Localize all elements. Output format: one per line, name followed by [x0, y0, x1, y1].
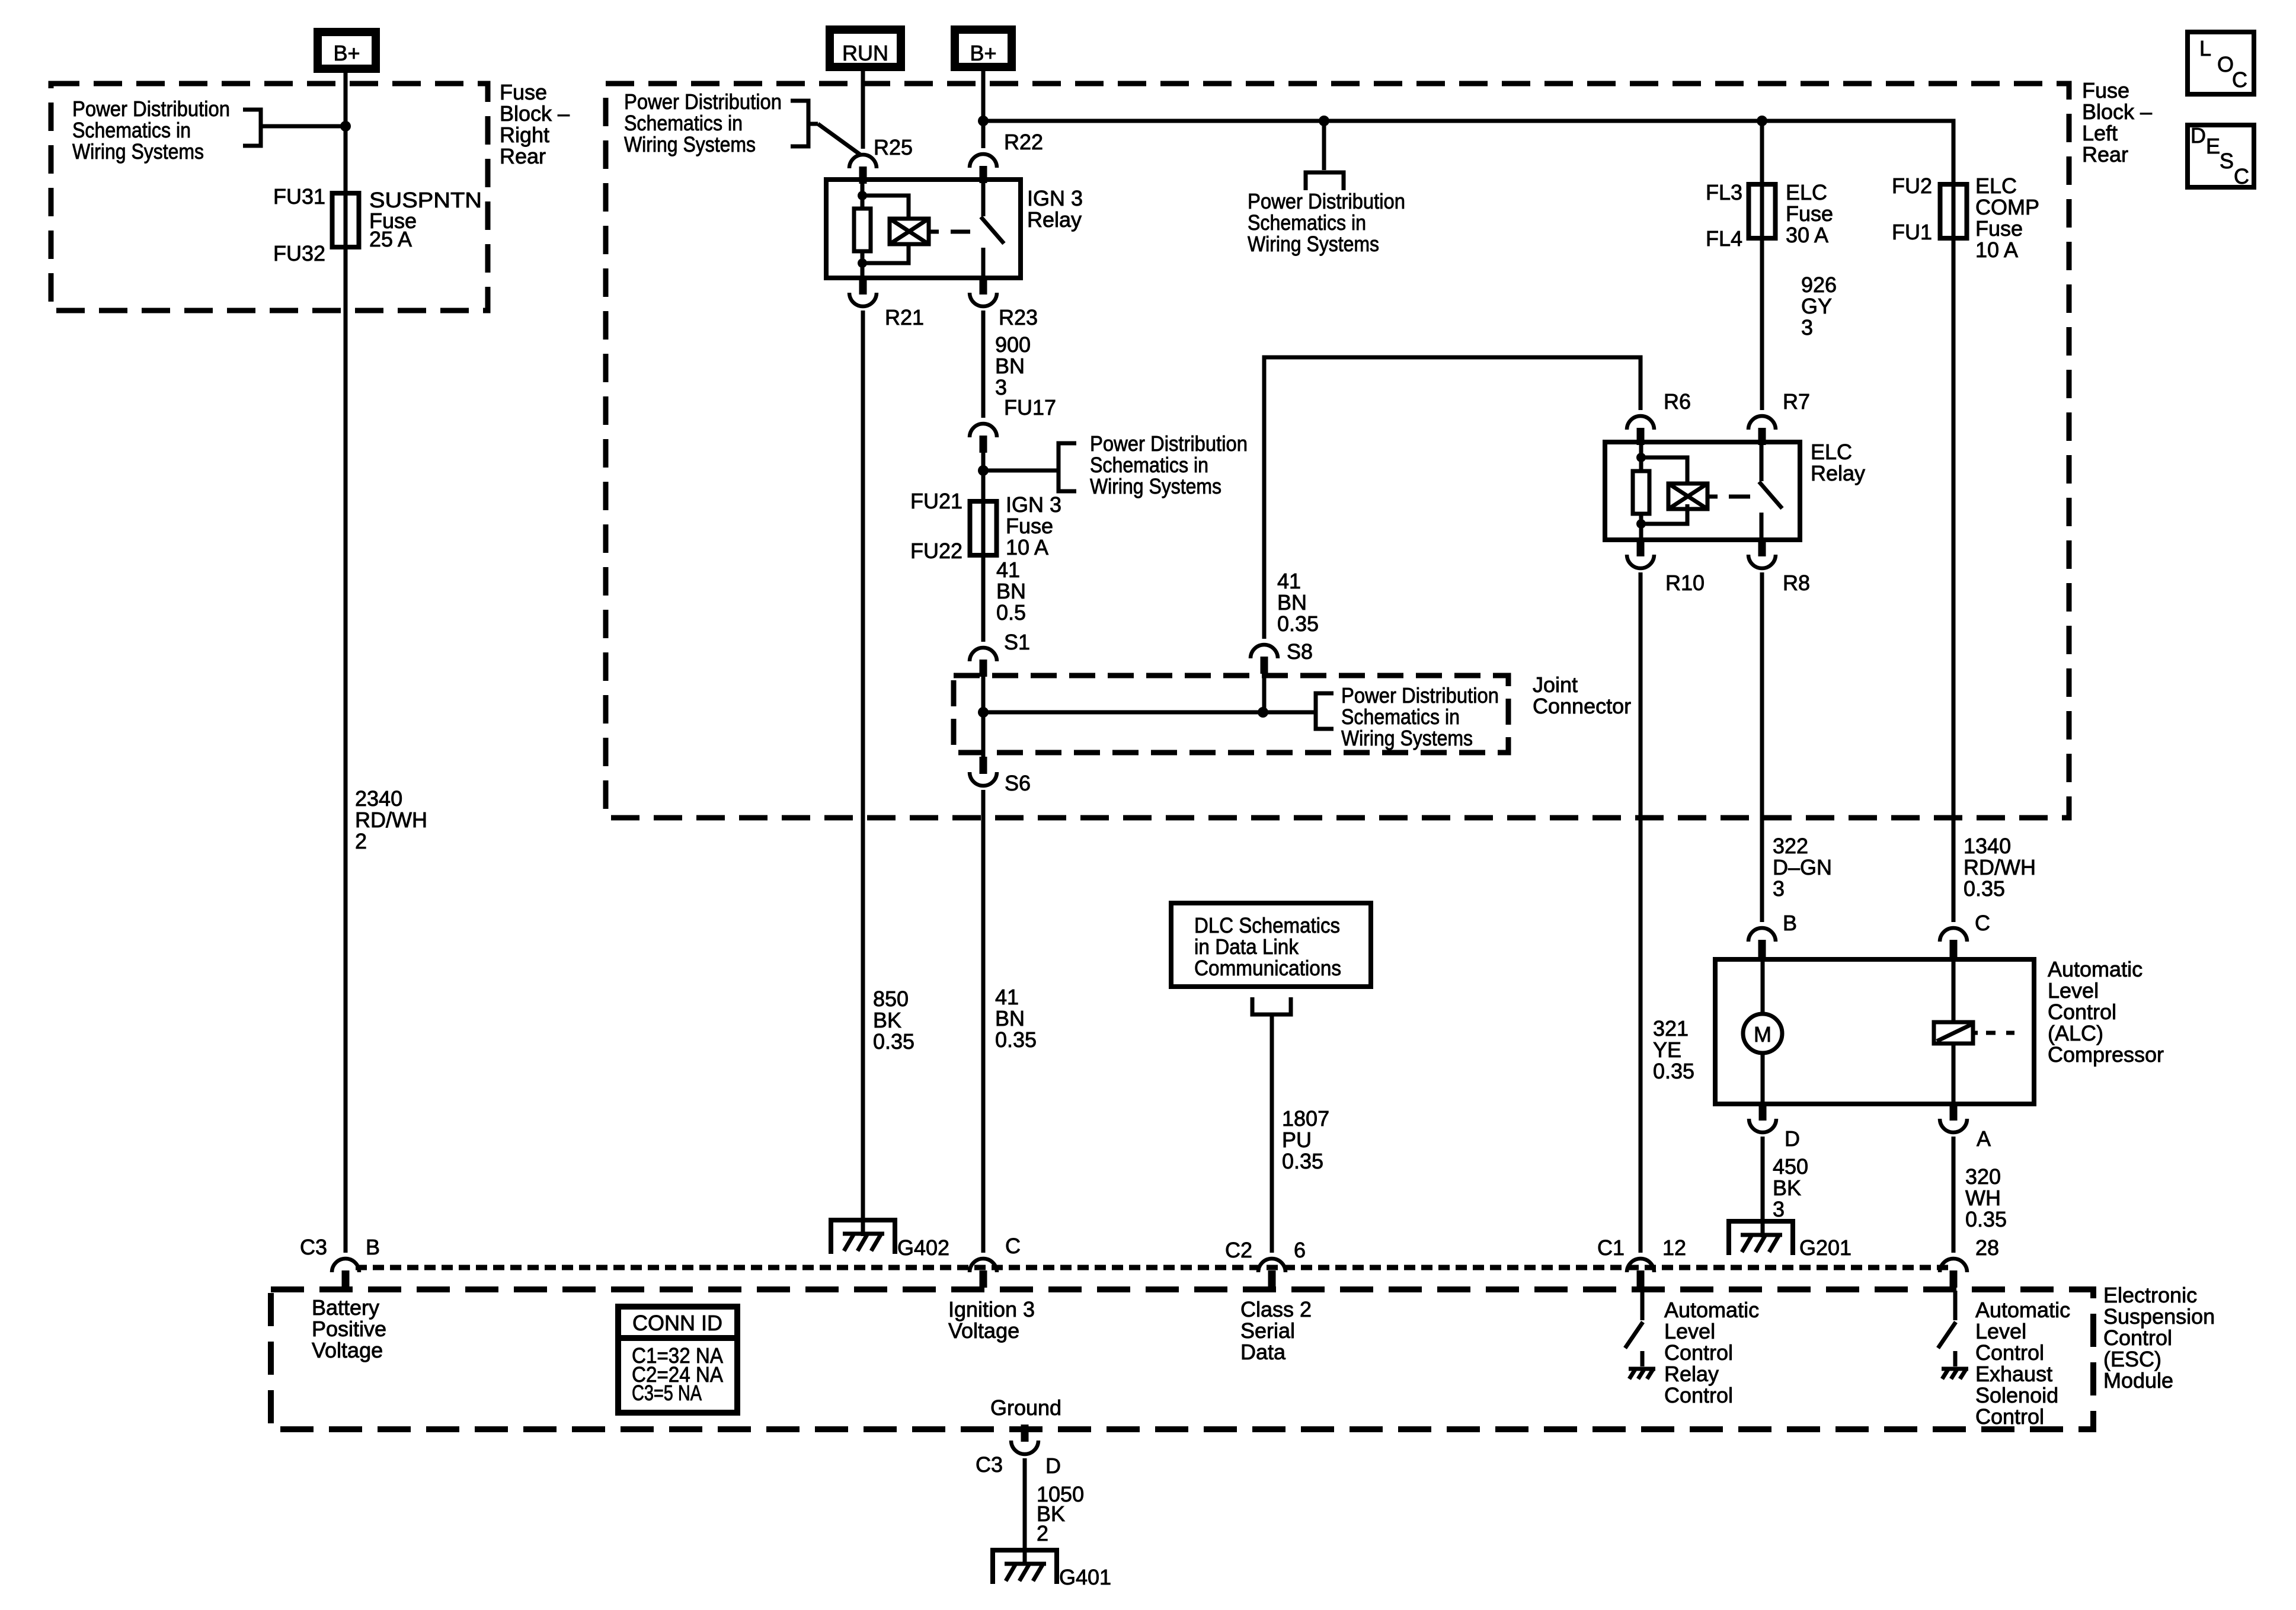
- wire: B+ left vertical down to ESC pin B: [344, 73, 348, 1253]
- svg-text:ELC: ELC: [1786, 180, 1827, 204]
- relay ELC coil resistor: [1633, 442, 1649, 540]
- svg-text:G201: G201: [1799, 1235, 1851, 1260]
- connector R21: [849, 277, 924, 329]
- svg-text:WH: WH: [1965, 1186, 2001, 1210]
- svg-text:Control: Control: [1664, 1340, 1733, 1365]
- switch: ALC exhaust solenoid driver: [1938, 1291, 1968, 1379]
- svg-text:3: 3: [1801, 315, 1813, 340]
- svg-text:Electronic: Electronic: [2103, 1283, 2197, 1307]
- wire: S6 down to ESC pin C: [981, 790, 986, 1253]
- wire label 1807 PU 0.35: [1282, 1106, 1329, 1173]
- svg-text:2: 2: [355, 829, 367, 853]
- svg-text:Wiring Systems: Wiring Systems: [1341, 726, 1473, 750]
- svg-text:C: C: [1975, 911, 1990, 935]
- wire label 850 BK 0.35: [873, 987, 914, 1054]
- svg-text:BK: BK: [873, 1008, 901, 1032]
- svg-text:41: 41: [1277, 569, 1301, 593]
- node: bus junction at FL3: [1757, 116, 1767, 126]
- svg-text:FL3: FL3: [1706, 180, 1742, 204]
- svg-text:Data: Data: [1240, 1340, 1286, 1364]
- wire: ground pin down to G401: [1023, 1458, 1027, 1566]
- svg-text:322: 322: [1773, 834, 1808, 858]
- svg-text:Schematics in: Schematics in: [1090, 453, 1208, 477]
- svg-text:RUN: RUN: [842, 41, 888, 65]
- svg-text:Level: Level: [1664, 1319, 1715, 1343]
- svg-text:FL4: FL4: [1706, 226, 1742, 251]
- svg-text:25 A: 25 A: [369, 227, 412, 251]
- svg-text:Schematics in: Schematics in: [72, 118, 191, 142]
- svg-text:Power Distribution: Power Distribution: [72, 97, 230, 121]
- svg-text:FU22: FU22: [910, 539, 962, 563]
- ground G402: [831, 1220, 949, 1260]
- motor M (ALC compressor): [1743, 959, 1782, 1104]
- svg-text:0.5: 0.5: [996, 600, 1026, 625]
- svg-text:Power Distribution: Power Distribution: [1248, 189, 1405, 213]
- svg-text:Level: Level: [1975, 1319, 2026, 1343]
- svg-text:C: C: [1005, 1234, 1021, 1258]
- connector A (ALC): [1940, 1103, 1991, 1151]
- svg-text:S6: S6: [1005, 771, 1031, 795]
- svg-text:0.35: 0.35: [1653, 1059, 1694, 1083]
- svg-text:FU1: FU1: [1892, 220, 1932, 244]
- svg-text:926: 926: [1801, 273, 1837, 297]
- power terminal B+ center: [955, 30, 1012, 67]
- svg-text:BK: BK: [1773, 1176, 1801, 1200]
- svg-text:YE: YE: [1653, 1038, 1681, 1062]
- power terminal B+ left: [318, 32, 376, 69]
- wire: DLC box to ESC pin C2-6: [1252, 997, 1291, 1253]
- node: joint connector junction at S8 leg: [1258, 707, 1268, 718]
- svg-text:Block –: Block –: [2082, 100, 2152, 124]
- svg-text:D: D: [2191, 123, 2206, 148]
- svg-text:Wiring Systems: Wiring Systems: [72, 139, 204, 164]
- connector S1: [970, 630, 1030, 677]
- svg-text:R10: R10: [1665, 571, 1705, 595]
- svg-text:R7: R7: [1783, 389, 1810, 414]
- wire label 926 GY 3: [1801, 273, 1837, 340]
- svg-text:D: D: [1045, 1454, 1061, 1478]
- svg-text:C2: C2: [1225, 1238, 1252, 1262]
- wire: fuse FU22 down to S1: [981, 555, 986, 642]
- svg-text:GY: GY: [1801, 294, 1832, 318]
- connector C1-12 ALC relay control: [1597, 1235, 1759, 1407]
- connector C ignition 3 voltage: [948, 1234, 1035, 1343]
- svg-text:2: 2: [1037, 1521, 1048, 1545]
- connector S6: [970, 757, 1031, 795]
- relay IGN 3 solenoid winding: [862, 196, 939, 263]
- svg-text:(ESC): (ESC): [2103, 1347, 2161, 1371]
- svg-text:Ignition 3: Ignition 3: [948, 1297, 1035, 1321]
- svg-text:Exhaust: Exhaust: [1975, 1362, 2052, 1386]
- connector R7: [1748, 389, 1810, 445]
- svg-text:0.35: 0.35: [1964, 876, 2005, 901]
- svg-text:Communications: Communications: [1194, 956, 1341, 980]
- svg-text:(ALC): (ALC): [2048, 1021, 2103, 1045]
- ALC compressor box: [1715, 957, 2164, 1104]
- wire: S8 pin stub to joint bus: [1262, 673, 1267, 712]
- svg-text:28: 28: [1975, 1235, 1999, 1260]
- CONN ID table: [618, 1307, 737, 1413]
- svg-text:Relay: Relay: [1811, 461, 1865, 485]
- connector R23: [970, 277, 1038, 329]
- svg-text:Wiring Systems: Wiring Systems: [624, 132, 756, 156]
- svg-text:R21: R21: [885, 305, 924, 329]
- connector D (ALC): [1749, 1103, 1800, 1151]
- solenoid valve (ALC exhaust): [1934, 959, 2014, 1104]
- svg-text:D–GN: D–GN: [1773, 855, 1832, 879]
- svg-text:O: O: [2217, 52, 2234, 76]
- fuse FU31/FU32 SUSPNTN 25A: [273, 184, 482, 265]
- wire label 450 BK 3: [1773, 1154, 1808, 1221]
- svg-text:B: B: [1783, 911, 1797, 935]
- svg-text:RD/WH: RD/WH: [355, 808, 427, 832]
- svg-text:3: 3: [1773, 876, 1785, 901]
- connector R8: [1748, 539, 1810, 595]
- wire: S1 through joint connector to S6: [981, 674, 986, 758]
- svg-text:Fuse: Fuse: [1975, 216, 2023, 241]
- svg-text:S: S: [2220, 149, 2234, 173]
- fuse block right rear dashed box: [51, 80, 570, 311]
- svg-text:41: 41: [996, 558, 1020, 582]
- svg-text:900: 900: [995, 332, 1031, 357]
- wire: R23 down to FU17: [981, 311, 986, 418]
- connector R22: [970, 130, 1043, 183]
- svg-text:Rear: Rear: [2082, 142, 2128, 167]
- svg-text:C1: C1: [1597, 1235, 1625, 1260]
- svg-text:Relay: Relay: [1664, 1362, 1719, 1386]
- svg-text:0.35: 0.35: [1282, 1149, 1323, 1173]
- relay ELC box: [1605, 440, 1865, 540]
- connector id dotted line: [356, 1265, 1953, 1270]
- joint connector dashed box: [954, 673, 1631, 753]
- svg-text:Wiring Systems: Wiring Systems: [1248, 232, 1379, 256]
- svg-text:R25: R25: [874, 135, 913, 159]
- wire label 41 BN 0.5: [996, 558, 1026, 625]
- svg-text:Fuse: Fuse: [1786, 201, 1833, 226]
- svg-text:R6: R6: [1664, 389, 1691, 414]
- svg-text:30 A: 30 A: [1786, 223, 1828, 247]
- svg-text:IGN 3: IGN 3: [1027, 186, 1083, 210]
- svg-text:Control: Control: [1664, 1383, 1733, 1407]
- svg-text:3: 3: [1773, 1197, 1785, 1221]
- connector C3/B battery positive: [300, 1235, 386, 1362]
- wire: D down to G201: [1761, 1137, 1765, 1237]
- svg-text:Rear: Rear: [500, 144, 546, 168]
- node: B+ bus junction: [978, 116, 989, 126]
- ground G201: [1729, 1221, 1851, 1260]
- wire: A down to ESC pin 28: [1952, 1137, 1956, 1253]
- callout: power distribution schematics (bus branch): [1248, 121, 1405, 256]
- svg-text:D: D: [1785, 1126, 1800, 1151]
- wire: R8 down to ALC pin B: [1760, 572, 1764, 922]
- svg-text:1340: 1340: [1964, 834, 2011, 858]
- svg-text:Voltage: Voltage: [312, 1338, 383, 1362]
- svg-text:FU31: FU31: [273, 184, 325, 209]
- svg-text:B+: B+: [333, 41, 360, 65]
- svg-text:FU2: FU2: [1892, 174, 1932, 198]
- svg-text:Ground: Ground: [990, 1395, 1061, 1420]
- svg-text:Power Distribution: Power Distribution: [1090, 431, 1248, 456]
- ground G401: [993, 1550, 1111, 1589]
- svg-text:Fuse: Fuse: [1006, 514, 1053, 538]
- svg-text:S8: S8: [1287, 639, 1313, 664]
- relay IGN 3 actuator dashed link: [951, 230, 970, 234]
- svg-text:ELC: ELC: [1975, 174, 2017, 198]
- svg-text:C3: C3: [976, 1452, 1003, 1477]
- connector R10: [1627, 539, 1705, 595]
- connector FU17: [970, 395, 1056, 453]
- connector C3/D ground pin: [976, 1395, 1061, 1478]
- node: bus junction for callout: [1319, 116, 1329, 126]
- connector C (ALC): [1940, 911, 1990, 957]
- svg-text:Right: Right: [500, 123, 549, 147]
- wire label 41 BN 0.35 (ignition): [995, 985, 1037, 1052]
- svg-text:450: 450: [1773, 1154, 1808, 1179]
- svg-text:6: 6: [1294, 1238, 1306, 1262]
- relay IGN 3 coil resistor: [854, 180, 871, 278]
- DESC reference box: [2188, 123, 2254, 188]
- svg-text:RD/WH: RD/WH: [1964, 855, 2036, 879]
- wire: FL4 down to R7: [1760, 238, 1764, 410]
- svg-text:Voltage: Voltage: [948, 1318, 1019, 1343]
- svg-text:Power Distribution: Power Distribution: [624, 89, 782, 114]
- connector R25: [849, 135, 913, 184]
- svg-text:Level: Level: [2048, 978, 2099, 1003]
- svg-text:BN: BN: [995, 1006, 1025, 1030]
- svg-text:0.35: 0.35: [1277, 612, 1319, 636]
- callout: power distribution schematics (fuse block right rear): [72, 97, 346, 164]
- connector B (ALC): [1748, 911, 1797, 957]
- svg-text:41: 41: [995, 985, 1019, 1009]
- callout: power distribution schematics (at FU17): [983, 431, 1248, 498]
- svg-text:Module: Module: [2103, 1368, 2173, 1393]
- connector S8: [1251, 639, 1313, 674]
- LOC reference box: [2188, 32, 2254, 94]
- wire: main B+ bus across top: [983, 121, 1953, 238]
- wire: RUN down to R25: [861, 67, 865, 149]
- svg-text:1807: 1807: [1282, 1106, 1329, 1131]
- svg-text:G401: G401: [1059, 1565, 1111, 1589]
- wire: B+ center down to R22: [981, 67, 986, 148]
- svg-text:C: C: [2232, 68, 2247, 92]
- relay ELC solenoid winding: [1641, 457, 1718, 524]
- svg-text:R23: R23: [999, 305, 1038, 329]
- svg-text:R22: R22: [1004, 130, 1043, 154]
- svg-text:320: 320: [1965, 1164, 2001, 1189]
- connector C2-6 class 2 serial data: [1225, 1238, 1312, 1364]
- svg-text:CONN ID: CONN ID: [632, 1311, 722, 1335]
- ESC module dashed box: [271, 1283, 2215, 1429]
- svg-text:0.35: 0.35: [873, 1029, 914, 1054]
- svg-text:Control: Control: [1975, 1404, 2044, 1429]
- callout: power distribution schematics (joint connector): [1316, 683, 1499, 750]
- svg-text:Power Distribution: Power Distribution: [1341, 683, 1499, 708]
- wire: bus down to FL3: [1760, 121, 1764, 238]
- connector R6: [1627, 389, 1691, 445]
- svg-text:10 A: 10 A: [1975, 238, 2018, 262]
- svg-text:E: E: [2206, 134, 2220, 158]
- svg-text:321: 321: [1653, 1016, 1689, 1041]
- switch: ALC relay control driver: [1625, 1291, 1655, 1379]
- svg-text:Control: Control: [2103, 1326, 2172, 1350]
- wire label 321 YE 0.35: [1653, 1016, 1694, 1083]
- svg-text:2340: 2340: [355, 786, 402, 811]
- wire label 2340 RD/WH 2: [355, 786, 427, 853]
- svg-text:Suspension: Suspension: [2103, 1304, 2215, 1329]
- svg-text:FU32: FU32: [273, 241, 325, 265]
- svg-text:C3=5 NA: C3=5 NA: [632, 1381, 702, 1405]
- svg-text:BN: BN: [995, 354, 1025, 378]
- DLC schematics reference box: [1171, 903, 1371, 987]
- wire label 320 WH 0.35: [1965, 1164, 2007, 1231]
- svg-text:B: B: [366, 1235, 380, 1259]
- svg-text:DLC Schematics: DLC Schematics: [1194, 913, 1340, 937]
- relay IGN 3 box: [826, 180, 1083, 278]
- svg-text:Block –: Block –: [500, 101, 570, 126]
- fuse FU21/FU22 IGN 3 10A: [910, 489, 1061, 563]
- svg-text:Automatic: Automatic: [1975, 1298, 2070, 1322]
- svg-text:FU21: FU21: [910, 489, 962, 513]
- svg-text:M: M: [1754, 1022, 1771, 1046]
- svg-text:L: L: [2199, 36, 2211, 60]
- svg-text:Connector: Connector: [1533, 694, 1631, 718]
- node: junction below FU17: [978, 465, 989, 476]
- svg-text:Relay: Relay: [1027, 207, 1082, 232]
- wire label 900 BN 3: [995, 332, 1031, 399]
- svg-text:S1: S1: [1004, 630, 1030, 654]
- svg-text:FU17: FU17: [1004, 395, 1056, 420]
- svg-text:BN: BN: [996, 579, 1026, 603]
- wire: R10 down to ESC pin C1-12: [1639, 572, 1643, 1253]
- svg-text:PU: PU: [1282, 1128, 1312, 1152]
- svg-text:in Data Link: in Data Link: [1194, 934, 1299, 959]
- fuse block left rear dashed box: [606, 78, 2152, 818]
- wire: FU17 pin to fuse FU21: [981, 450, 986, 558]
- svg-text:BN: BN: [1277, 590, 1307, 614]
- wire: R21 down to G402: [861, 311, 865, 1236]
- svg-text:Schematics in: Schematics in: [1341, 705, 1460, 729]
- fuse FU2/FU1 ELC COMP 10A: [1892, 174, 2039, 262]
- svg-text:Serial: Serial: [1240, 1318, 1295, 1343]
- svg-text:Left: Left: [2082, 121, 2118, 145]
- svg-text:R8: R8: [1783, 571, 1810, 595]
- svg-text:Wiring Systems: Wiring Systems: [1090, 474, 1221, 498]
- power terminal RUN: [830, 30, 901, 67]
- svg-text:10 A: 10 A: [1006, 535, 1048, 559]
- connector 28 ALC exhaust solenoid control: [1940, 1235, 2070, 1429]
- svg-text:Battery: Battery: [312, 1295, 379, 1320]
- svg-text:Fuse: Fuse: [500, 80, 547, 104]
- svg-text:COMP: COMP: [1975, 195, 2039, 219]
- svg-text:B+: B+: [970, 41, 996, 65]
- svg-text:Schematics in: Schematics in: [624, 111, 743, 135]
- svg-text:Automatic: Automatic: [2048, 957, 2142, 981]
- svg-text:ELC: ELC: [1811, 440, 1852, 464]
- svg-text:Solenoid: Solenoid: [1975, 1383, 2058, 1407]
- svg-text:Automatic: Automatic: [1664, 1298, 1759, 1322]
- fuse FL3/FL4 ELC 30A: [1706, 180, 1833, 251]
- svg-text:A: A: [1977, 1126, 1991, 1151]
- node: junction on B+ wire for callout: [340, 121, 351, 132]
- wire: FU1 down to ALC pin C: [1952, 238, 1956, 922]
- callout: power distribution schematics (top middle): [624, 89, 861, 156]
- wire label 1340 RD/WH 0.35: [1964, 834, 2036, 901]
- svg-text:Schematics in: Schematics in: [1248, 210, 1366, 235]
- wire label 41 BN 0.35 (S8): [1277, 569, 1319, 636]
- svg-text:C: C: [2234, 164, 2249, 188]
- relay ELC actuator dashed link: [1729, 495, 1750, 499]
- svg-text:Fuse: Fuse: [2082, 78, 2129, 103]
- svg-text:G402: G402: [897, 1235, 949, 1260]
- relay IGN 3 switch: [981, 180, 1004, 278]
- svg-text:Control: Control: [2048, 1000, 2116, 1024]
- svg-text:Compressor: Compressor: [2048, 1042, 2164, 1067]
- wire label 1050 BK 2: [1037, 1482, 1084, 1545]
- svg-text:Positive: Positive: [312, 1317, 386, 1341]
- node: joint connector junction at S1 leg: [978, 707, 989, 718]
- svg-text:C3: C3: [300, 1235, 327, 1259]
- svg-text:850: 850: [873, 987, 909, 1011]
- relay ELC switch: [1759, 442, 1782, 540]
- svg-text:Class 2: Class 2: [1240, 1297, 1312, 1321]
- svg-text:Control: Control: [1975, 1340, 2044, 1365]
- wire: joint connector internal bus: [983, 710, 1315, 715]
- svg-text:Joint: Joint: [1533, 673, 1578, 697]
- svg-text:IGN 3: IGN 3: [1006, 492, 1061, 517]
- svg-text:0.35: 0.35: [1965, 1207, 2007, 1231]
- wire: S8 riser and run to ELC relay R6: [1264, 357, 1641, 639]
- wire label 322 D-GN 3: [1773, 834, 1832, 901]
- svg-text:12: 12: [1662, 1235, 1686, 1260]
- svg-text:0.35: 0.35: [995, 1028, 1037, 1052]
